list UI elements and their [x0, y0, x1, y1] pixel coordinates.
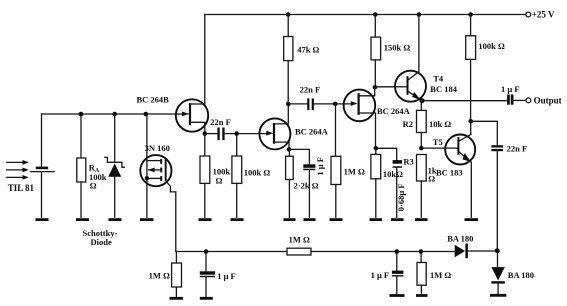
ground 1uF mid [304, 218, 316, 221]
ground TIL81 [36, 218, 49, 221]
ground 100k first [199, 218, 212, 221]
svg-text:100k Ω: 100k Ω [244, 167, 271, 177]
wire drain node to cap2 [288, 103, 307, 105]
svg-text:1 μ F: 1 μ F [315, 157, 325, 176]
svg-text:R3: R3 [403, 156, 413, 166]
svg-text:Diode: Diode [91, 237, 112, 247]
resistor 47k [284, 15, 320, 104]
jfet BC 264B [137, 15, 209, 134]
node 100k second top [234, 131, 239, 136]
svg-text:1M Ω: 1M Ω [430, 270, 451, 280]
ground 100k second [231, 218, 244, 221]
wire source to 0.68uF [376, 148, 397, 160]
capacitor 22n F (second) [300, 84, 321, 110]
svg-text:1 μ F: 1 μ F [217, 271, 236, 281]
ground 0.68uF [391, 218, 404, 221]
wire bottom feedback bus [176, 192, 287, 252]
terminal Output [526, 98, 531, 103]
svg-text:BC 184: BC 184 [430, 84, 457, 94]
svg-text:1 μ F: 1 μ F [501, 84, 520, 94]
node bus-1M br [419, 249, 424, 254]
svg-text:T5: T5 [433, 137, 443, 147]
svg-text:10k Ω: 10k Ω [429, 119, 451, 129]
phototransistor TIL 81 [7, 114, 55, 217]
ground BA180 v [490, 294, 506, 297]
node bus-right end [495, 248, 500, 253]
diode BA 180 (vertical) [491, 251, 534, 294]
svg-text:100k Ω: 100k Ω [478, 41, 505, 51]
node bus-schottky [112, 112, 117, 117]
svg-text:BC 264A: BC 264A [377, 106, 411, 116]
ground 1uF br [390, 294, 405, 297]
resistor 1M (bottom left) [149, 252, 182, 297]
wire cap2 to BC264A2 gate [314, 103, 352, 105]
ground R3 [415, 218, 428, 221]
ground 1M mid [330, 218, 343, 221]
wire to T5 base [421, 147, 457, 149]
svg-text:10kΩ: 10kΩ [383, 169, 403, 179]
node rail-153k [373, 12, 378, 17]
transistor T4 BC 184 [395, 15, 458, 102]
wire top supply rail [205, 14, 526, 16]
svg-text:1M Ω: 1M Ω [289, 235, 310, 245]
ground schottky [109, 218, 122, 221]
wire source node to cap [205, 133, 218, 135]
svg-text:22n F: 22n F [210, 117, 231, 127]
node bus-3N160 [144, 112, 149, 117]
power terminal +25 V [526, 12, 531, 17]
wire input gate bus [42, 113, 184, 115]
transistor T5 BC 183 [433, 134, 475, 217]
node BC264B source [203, 131, 208, 136]
resistor 2.2k [286, 149, 319, 217]
ground RA [76, 218, 89, 221]
svg-text:47k Ω: 47k Ω [297, 45, 319, 55]
node 153k-T4 base [373, 85, 378, 90]
node T4 emitter [419, 98, 424, 103]
svg-text:22n F: 22n F [300, 84, 321, 94]
svg-text:1 μ F: 1 μ F [371, 270, 390, 280]
capacitor 22n F (right) [491, 143, 527, 250]
resistor 10k (middle) [371, 148, 403, 217]
ground 1M br [416, 294, 428, 297]
wire source to 1uF mid [289, 149, 309, 164]
ground 1M bl [170, 297, 184, 300]
ground 2.2k [284, 218, 296, 221]
node bus-RA [79, 112, 84, 117]
node BC264A1 source [287, 147, 292, 152]
resistor 1M (middle) [331, 104, 365, 217]
resistor R3 1k [403, 155, 436, 218]
diode BA 180 (horizontal) [447, 234, 497, 259]
svg-text:BA 180: BA 180 [447, 234, 473, 244]
resistor 1M (bottom right) [417, 252, 451, 295]
svg-text:Ω: Ω [90, 180, 97, 190]
resistor 100k (right) [466, 15, 505, 122]
resistor 153k [371, 15, 410, 88]
wire to T4 base [375, 86, 396, 88]
ground 10k mid [370, 218, 383, 221]
node bus-1uF br [395, 249, 400, 254]
svg-text:Ω: Ω [428, 174, 435, 184]
node R2-R3-T5 base [419, 146, 424, 151]
resistor R2 10k [403, 101, 452, 148]
node rail-100k [468, 12, 473, 17]
capacitor 0.68uF [393, 160, 406, 217]
svg-text:1M Ω: 1M Ω [149, 271, 170, 281]
node 1M mid top [333, 102, 338, 107]
svg-text:TIL 81: TIL 81 [8, 183, 35, 193]
wire bus right section [311, 251, 455, 253]
capacitor 1uF (bottom left) [200, 252, 236, 297]
svg-text:BA 180: BA 180 [508, 270, 534, 280]
node rail-47k [286, 12, 291, 17]
wire cap to BC264A gate [225, 133, 267, 135]
wire to 22nF right [471, 121, 498, 145]
svg-text:2·2k Ω: 2·2k Ω [294, 181, 319, 191]
ground 1uF bl [200, 297, 213, 300]
svg-text:BC 183: BC 183 [436, 168, 463, 178]
node rail-T4 collector [417, 12, 422, 17]
svg-text:1M Ω: 1M Ω [344, 166, 365, 176]
wire T5 collector [470, 121, 472, 134]
node 100k-T5 collector [468, 119, 473, 124]
capacitor 22n F (first) [210, 117, 231, 140]
svg-text:150k Ω: 150k Ω [384, 43, 411, 53]
svg-text:Ω: Ω [216, 175, 223, 185]
capacitor 1uF (second stage) [303, 157, 325, 217]
svg-text:22n F: 22n F [507, 143, 528, 153]
resistor 100k (first) [200, 134, 230, 218]
node BC264A1 drain [286, 102, 291, 107]
svg-text:T4: T4 [433, 74, 444, 84]
capacitor 1uF output [501, 84, 520, 105]
capacitor 1uF (bottom right) [371, 252, 404, 295]
svg-text:3N 160: 3N 160 [145, 143, 170, 153]
svg-text:R2: R2 [403, 119, 413, 129]
svg-text:+25 V: +25 V [532, 10, 555, 20]
jfet BC 264A (first) [259, 104, 328, 149]
node BC264A2 source [374, 146, 379, 151]
ground T5 emitter [465, 218, 479, 221]
resistor RA 100k [77, 114, 107, 217]
svg-text:0·68μ F: 0·68μ F [396, 183, 406, 211]
svg-text:Output: Output [534, 96, 562, 106]
wire output line [422, 100, 507, 102]
resistor 100k (second) [232, 134, 271, 218]
resistor 1M (horizontal) [287, 235, 311, 255]
schottky diode D1 [83, 114, 125, 247]
jfet BC 264A (second) [344, 87, 411, 148]
svg-text:BC 264A: BC 264A [295, 127, 329, 137]
node bus-1uF bl [204, 249, 209, 254]
mosfet 3N 160 [140, 114, 176, 217]
svg-text:BC 264B: BC 264B [137, 95, 170, 105]
wire cap to output terminal [514, 99, 526, 101]
ground 3N160 source [140, 218, 154, 221]
